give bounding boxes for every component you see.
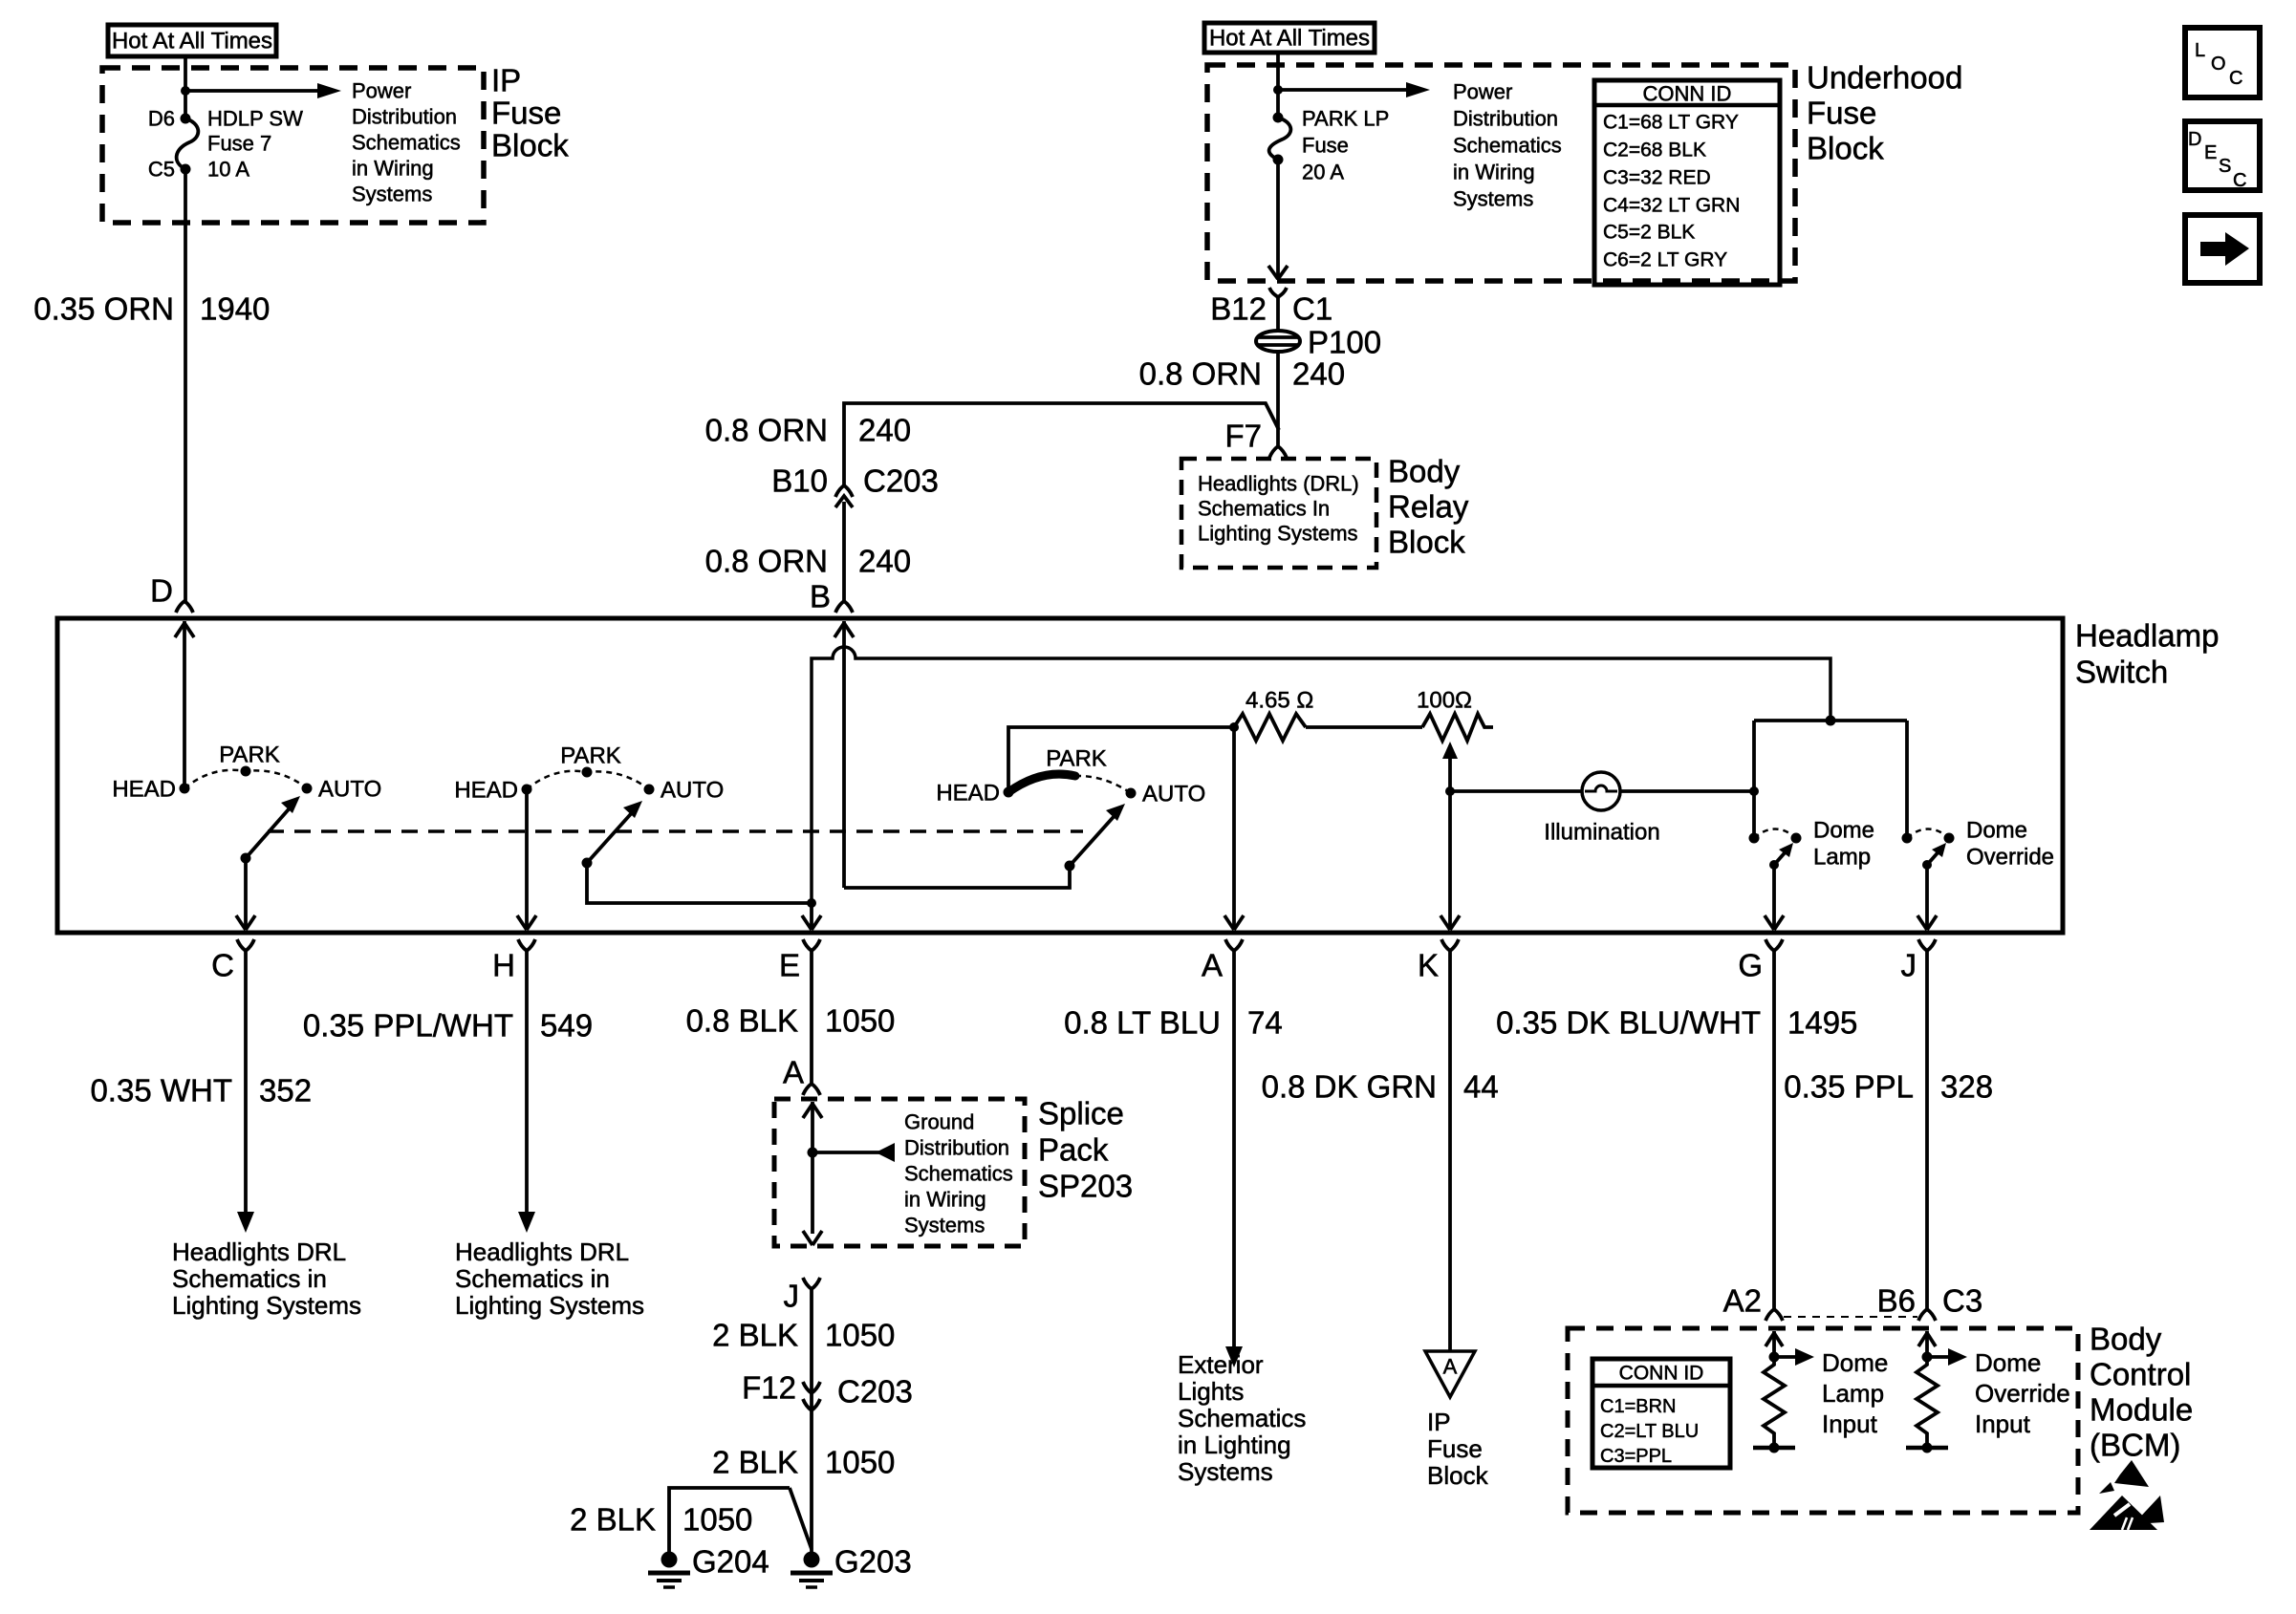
terminal K fork below box [1441,939,1459,951]
svg-text:C1=68 LT GRY: C1=68 LT GRY [1603,112,1739,134]
connector fork at D [176,601,193,613]
svg-text:Systems: Systems [1453,187,1533,211]
dome override label [1966,818,2054,871]
svg-text:IP: IP [1427,1408,1451,1436]
node dome bar center [1826,716,1836,726]
svg-text:Fuse 7: Fuse 7 [207,132,271,156]
IP fuse block reference triangle A [1425,1351,1475,1397]
svg-text:Body: Body [1388,454,1461,489]
node E junction [807,898,816,908]
svg-text:0.8 BLK: 0.8 BLK [686,1003,798,1039]
wire A inside box with down arrow [1224,727,1244,930]
svg-text:Lighting Systems: Lighting Systems [455,1291,644,1320]
svg-text:K: K [1418,948,1439,983]
svg-text:C203: C203 [837,1374,913,1410]
wire label 0.8 ORN 240 (branch upper) [705,413,911,448]
wire label 0.35 ORN 1940 [33,291,270,327]
svg-text:328: 328 [1940,1069,1993,1105]
terminal J fork below box [1918,939,1936,951]
svg-text:Headlights (DRL): Headlights (DRL) [1198,472,1359,496]
wire from switch 2 pivot to E node [587,863,812,903]
wire G inside box with down arrow [1765,865,1784,930]
wire B inside box with up arrow [834,621,854,888]
svg-text:B6: B6 [1877,1283,1916,1319]
ESD sensitive device symbol [2090,1460,2164,1530]
svg-text:HEAD: HEAD [936,781,1000,807]
svg-text:4.65 Ω: 4.65 Ω [1245,688,1313,714]
dome override input label [1975,1348,2070,1438]
svg-text:G: G [1738,948,1763,983]
svg-text:A: A [1443,1355,1458,1379]
svg-text:C5: C5 [148,158,175,182]
wire from hot box 2 [1276,53,1280,118]
wire label 0.8 BLK 1050 [686,1003,896,1039]
svg-text:A: A [1202,948,1223,983]
fuse value text [207,107,303,182]
BCM label [2090,1322,2193,1463]
dome override switch [1902,829,1955,871]
grommet P100 [1256,331,1300,352]
wire D inside box with up arrow [175,621,194,788]
switch 3 HEAD contact [1004,787,1014,798]
underhood fuse block dashed box [1207,65,1795,281]
wire label 2 BLK 1050 (G204) [570,1502,752,1538]
svg-text:44: 44 [1463,1069,1499,1105]
svg-text:2 BLK: 2 BLK [570,1502,656,1538]
svg-text:Block: Block [1388,525,1465,560]
svg-text:Distribution: Distribution [1453,107,1558,131]
ground distribution reference arrow [812,1143,895,1162]
mechanical gang dashed line [268,829,1083,833]
svg-text:C2=LT BLU: C2=LT BLU [1600,1421,1699,1442]
switch 3 wiper arrow [1070,804,1125,866]
svg-text:Systems: Systems [352,183,432,206]
svg-text:Pack: Pack [1038,1132,1109,1168]
wire bar to dome lamp contact [1752,721,1756,838]
CONN ID table BCM [1592,1359,1730,1468]
svg-text:IP: IP [491,63,521,98]
LOC icon box [2185,28,2260,97]
svg-text:CONN ID: CONN ID [1619,1363,1704,1385]
svg-text:20 A: 20 A [1302,161,1344,184]
svg-text:1495: 1495 [1787,1005,1857,1041]
svg-text:Power: Power [1453,80,1512,104]
wire E inner horizontal with hop over B [812,647,1830,903]
svg-text:O: O [2211,54,2226,75]
wire label 2 BLK 1050 (lower) [712,1445,895,1480]
svg-text:C4=32 LT GRN: C4=32 LT GRN [1603,195,1740,217]
svg-text:549: 549 [540,1008,593,1044]
wire B feed to switch 3 pivot [844,866,1070,888]
svg-text:Module: Module [2090,1392,2193,1428]
svg-text:Relay: Relay [1388,489,1469,525]
switch 2 PARK contact [582,767,593,778]
terminal G fork below box [1765,939,1783,951]
wire label 0.8 DK GRN 44 [1262,1069,1499,1105]
svg-text:PARK: PARK [219,742,280,768]
hot-at-all-times box 1 [108,25,276,56]
svg-text:Schematics In: Schematics In [1198,497,1330,521]
rheostat wiper arrow K [1442,742,1458,791]
svg-text:G203: G203 [834,1544,912,1580]
switch 3 pivot node [1065,861,1075,872]
svg-text:Schematics: Schematics [352,131,461,155]
svg-text:J: J [1901,948,1917,983]
underhood fuse block label [1807,60,1962,166]
svg-text:C3: C3 [1942,1283,1982,1319]
headlights DRL reference text (H) [455,1237,644,1320]
svg-text:AUTO: AUTO [1142,782,1205,807]
switch 3 AUTO contact [1126,788,1137,799]
wire K inside box with down arrow [1440,791,1460,930]
resistor 100 ohm (rheostat) [1422,714,1493,741]
svg-text:C: C [211,948,234,983]
power distribution reference text 2 [1453,80,1562,211]
wire between resistors [1306,725,1422,729]
svg-text:1050: 1050 [825,1445,895,1480]
switch 1 dashed travel arc [184,770,307,788]
body relay block dashed box [1181,459,1376,568]
svg-text:C5=2 BLK: C5=2 BLK [1603,222,1695,244]
wire H to headlights DRL ref [518,951,535,1233]
svg-text:HDLP SW: HDLP SW [207,107,303,131]
wire stub into body relay block [1276,430,1280,446]
svg-text:AUTO: AUTO [661,778,724,804]
svg-text:0.8 DK GRN: 0.8 DK GRN [1262,1069,1437,1105]
connector fork at BCM C3 [1918,1309,1936,1321]
body relay reference text [1198,472,1359,546]
connector fork at B [835,601,853,613]
wire J inside box with down arrow [1917,865,1937,930]
terminal C fork below box [237,939,254,951]
svg-text:0.35 DK BLU/WHT: 0.35 DK BLU/WHT [1496,1005,1761,1041]
node junction at park lp fuse feed [1273,85,1283,95]
svg-text:Illumination: Illumination [1544,820,1659,846]
switch 1 pivot node [241,853,251,864]
svg-text:G204: G204 [692,1544,769,1580]
svg-text:240: 240 [858,413,911,448]
svg-text:Dome: Dome [1966,818,2027,844]
svg-text:Schematics in: Schematics in [172,1264,327,1293]
wire lamp to dome lamp contact [1620,789,1754,793]
svg-text:D6: D6 [148,107,175,131]
svg-text:1050: 1050 [825,1003,895,1039]
svg-text:0.8 LT BLU: 0.8 LT BLU [1064,1005,1221,1041]
svg-text:Lamp: Lamp [1822,1379,1884,1408]
wire label 0.35 WHT 352 [90,1073,312,1108]
dome lamp input label [1822,1348,1888,1438]
CONN ID table underhood [1594,80,1780,285]
headlights DRL reference text (C) [172,1237,361,1320]
wire K to IP fuse block ref [1448,951,1452,1351]
switch 1 PARK contact [241,766,251,777]
svg-text:J: J [784,1279,800,1314]
svg-text:B12: B12 [1210,291,1267,327]
wire label 0.8 ORN 240 (branch lower) [705,544,911,579]
wire E to splice pack [810,951,813,1084]
svg-text:C: C [2229,68,2242,89]
wire D from fuse to headlamp switch [184,169,187,601]
svg-text:Dome: Dome [1813,818,1874,844]
wire branch to ground G204 [669,1488,790,1552]
wire label 0.35 PPL/WHT 549 [303,1008,593,1044]
svg-text:HEAD: HEAD [454,778,518,804]
svg-text:D: D [2188,129,2201,150]
wire branch to headlamp switch B [844,403,1279,485]
svg-text:CONN ID: CONN ID [1643,82,1732,106]
svg-text:0.35 PPL: 0.35 PPL [1784,1069,1914,1105]
svg-text:PARK: PARK [1046,746,1107,772]
svg-text:Splice: Splice [1038,1096,1124,1131]
svg-text:Headlamp: Headlamp [2075,618,2219,654]
terminal E fork below box [803,939,820,951]
wire A to exterior lights ref [1225,951,1243,1367]
connector fork B12/C1 below underhood box [1269,288,1287,297]
terminal A fork below box [1225,939,1243,951]
svg-text:Distribution: Distribution [352,105,457,129]
svg-text:C3=32 RED: C3=32 RED [1603,167,1711,189]
wire label 0.8 ORN 240 (fuse output) [1139,356,1345,392]
node junction at fuse feed [181,86,190,96]
svg-text:C1: C1 [1292,291,1332,327]
svg-text:AUTO: AUTO [318,777,381,803]
svg-text:Schematics: Schematics [904,1162,1013,1186]
dome lamp input resistor [1764,1357,1785,1448]
svg-text:2 BLK: 2 BLK [712,1318,798,1353]
fuse value text 2 [1302,107,1389,184]
ground G203 [791,1552,833,1588]
svg-text:Exterior: Exterior [1178,1350,1264,1379]
svg-text:C3=PPL: C3=PPL [1600,1446,1672,1467]
svg-text:Lamp: Lamp [1813,845,1871,871]
svg-text:Fuse: Fuse [1302,134,1349,158]
switch 2 wiper arrow [587,801,642,863]
connector fork at F7 [1269,446,1287,458]
svg-text:74: 74 [1247,1005,1283,1041]
svg-text:Control: Control [2090,1357,2191,1392]
svg-text:PARK LP: PARK LP [1302,107,1389,131]
svg-text:Underhood: Underhood [1807,60,1962,96]
splice node SP203 [808,1148,818,1158]
wire below grommet [1276,352,1280,430]
wire H inside box with down arrow [517,789,536,930]
connector fork at BCM A2 [1765,1309,1783,1321]
wire from C203 to headlamp switch B [842,502,846,601]
ground G204 [648,1552,690,1588]
svg-text:Input: Input [1975,1410,2031,1438]
svg-text:1940: 1940 [200,291,270,327]
body relay block label [1388,454,1469,560]
svg-text:2 BLK: 2 BLK [712,1445,798,1480]
svg-text:352: 352 [259,1073,312,1108]
node resistor feed [1229,722,1239,732]
switch 2 AUTO contact [644,785,655,795]
dome lamp input ground bar [1753,1443,1795,1453]
arrow to power distribution reference [185,83,341,98]
svg-text:0.35 WHT: 0.35 WHT [90,1073,232,1108]
switch 2 pivot node [582,858,593,869]
connector fork at splice A [803,1084,820,1095]
svg-text:0.8 ORN: 0.8 ORN [705,544,828,579]
svg-text:Hot At All Times: Hot At All Times [1209,26,1370,52]
fuse PARK LP 20A [1269,113,1291,165]
svg-text:A: A [783,1055,804,1090]
wire into grommet [1276,297,1280,332]
svg-text:A2: A2 [1723,1283,1762,1319]
svg-text:Headlights DRL: Headlights DRL [172,1237,346,1266]
svg-text:0.35 ORN: 0.35 ORN [33,291,174,327]
wire J to ground G203 [810,1289,813,1552]
wire from switch 3 HEAD to resistor node [1008,727,1234,792]
svg-text:B: B [810,579,831,614]
dome lamp switch [1749,829,1802,871]
svg-text:C6=2 LT GRY: C6=2 LT GRY [1603,249,1727,271]
wire label 0.8 LT BLU 74 [1064,1005,1283,1041]
wire bar to dome override contact [1905,721,1909,838]
svg-text:Hot At All Times: Hot At All Times [112,29,272,54]
svg-text:B10: B10 [771,463,828,499]
in-line connector C203 pin F12 [803,1382,820,1410]
wire E exit with down arrow [802,903,821,930]
svg-text:HEAD: HEAD [112,777,176,803]
svg-text:P100: P100 [1308,325,1381,360]
power distribution reference text [352,79,461,206]
IP fuse block label [491,63,569,163]
svg-text:Schematics in: Schematics in [455,1264,610,1293]
svg-text:Fuse: Fuse [1807,96,1876,131]
svg-text:in Wiring: in Wiring [904,1188,986,1212]
svg-text:Block: Block [1427,1461,1489,1490]
svg-text:E: E [779,948,800,983]
svg-text:C1=BRN: C1=BRN [1600,1396,1676,1417]
wire C inside box with down arrow [236,858,255,930]
svg-text:Dome: Dome [1822,1348,1888,1377]
svg-text:F7: F7 [1224,419,1262,454]
svg-text:Headlights DRL: Headlights DRL [455,1237,629,1266]
wire J to BCM [1925,951,1929,1309]
headlamp switch label [2075,618,2219,690]
forward arrow icon box [2185,215,2260,283]
node lamp/dome junction [1749,786,1759,796]
terminal H fork below box [518,939,535,951]
dome override input resistor [1917,1357,1938,1448]
fuse F7 HDLP SW 10A [177,114,199,175]
svg-text:Distribution: Distribution [904,1136,1009,1160]
svg-text:Fuse: Fuse [491,96,561,131]
dome override input circuit [1918,1331,1967,1366]
svg-text:E: E [2204,142,2217,163]
svg-text:L: L [2195,40,2205,61]
svg-text:Systems: Systems [904,1214,985,1237]
svg-text:Input: Input [1822,1410,1878,1438]
dashed connector face line [1784,1316,1917,1318]
svg-text:SP203: SP203 [1038,1169,1133,1204]
svg-text:in Wiring: in Wiring [352,157,434,181]
headlamp switch box [57,618,2063,933]
svg-text:1050: 1050 [682,1502,752,1538]
svg-text:Switch: Switch [2075,655,2168,690]
svg-text:Override: Override [1966,845,2054,871]
svg-text:Lights: Lights [1178,1377,1244,1406]
resistor 4.65 ohm [1234,714,1306,741]
svg-text:C: C [2233,170,2246,191]
svg-text:(BCM): (BCM) [2090,1428,2180,1463]
dome override input ground bar [1906,1443,1948,1453]
svg-text:Lighting Systems: Lighting Systems [1198,522,1358,546]
branch diagonal into G203 wire [790,1488,812,1549]
DESC icon box [2185,121,2260,191]
hot-at-all-times box 2 [1204,23,1375,53]
splice wire with up arrow [803,1102,822,1245]
dome feed bar [1754,719,1907,722]
switch 1 AUTO contact [302,784,313,794]
wire from hot box into fuse block [184,56,187,118]
in-line connector C203 pin B10 [835,485,853,507]
dome lamp input circuit [1765,1331,1814,1366]
svg-text:100Ω: 100Ω [1417,688,1472,714]
svg-text:Schematics: Schematics [1453,134,1562,158]
svg-text:240: 240 [858,544,911,579]
wire G to BCM [1772,951,1776,1309]
svg-text:Ground: Ground [904,1110,974,1134]
svg-text:D: D [150,573,173,609]
wire K to illumination lamp [1450,789,1583,793]
svg-text:1050: 1050 [825,1318,895,1353]
svg-text:10 A: 10 A [207,158,249,182]
svg-text:C2=68 BLK: C2=68 BLK [1603,140,1706,161]
wire label 0.35 PPL 328 [1784,1069,1993,1105]
svg-text:Fuse: Fuse [1427,1434,1483,1463]
svg-text:Body: Body [2090,1322,2162,1357]
svg-text:240: 240 [1292,356,1345,392]
node K junction [1445,786,1455,796]
splice pack SP203 dashed box [774,1099,1025,1246]
exterior lights reference text [1178,1350,1306,1486]
svg-text:S: S [2219,156,2231,177]
wire from fuse to box edge with down arrow [1268,160,1288,279]
switch 1 wiper arrow [246,796,300,858]
svg-text:H: H [492,948,515,983]
IP fuse block dashed box [102,68,484,223]
svg-text:0.8 ORN: 0.8 ORN [705,413,828,448]
switch 2 dashed travel arc [527,771,649,789]
svg-text:in Wiring: in Wiring [1453,161,1535,184]
BCM dashed box [1568,1328,2078,1513]
svg-text:0.8 ORN: 0.8 ORN [1139,356,1262,392]
svg-text:PARK: PARK [560,743,621,769]
arrow to power distribution reference 2 [1278,82,1430,97]
svg-text:Systems: Systems [1178,1457,1273,1486]
svg-text:0.35 PPL/WHT: 0.35 PPL/WHT [303,1008,513,1044]
wire label 2 BLK 1050 (upper) [712,1318,895,1353]
wire C to headlights DRL ref [237,951,254,1233]
dome lamp label [1813,818,1874,871]
switch 3 wiper blade (closed to PARK side) [1008,774,1075,792]
ground distribution reference text [904,1110,1013,1237]
svg-text:Lighting Systems: Lighting Systems [172,1291,361,1320]
switch 3 dashed travel arc [1075,776,1131,793]
svg-text:Block: Block [1807,131,1884,166]
svg-text:Power: Power [352,79,411,103]
IP fuse block reference text [1427,1408,1489,1490]
switch 1 HEAD contact [180,784,190,794]
wire label 0.35 DK BLU/WHT 1495 [1496,1005,1857,1041]
svg-text:Block: Block [491,128,569,163]
svg-text:Override: Override [1975,1379,2070,1408]
illumination lamp [1582,772,1620,810]
switch 2 HEAD contact [522,785,532,795]
splice pack label [1038,1096,1133,1204]
